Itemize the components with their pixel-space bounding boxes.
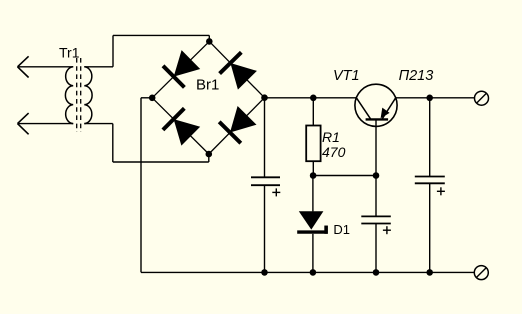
resistor R1	[306, 126, 320, 162]
wire stub to bridge top node	[208, 35, 210, 41]
svg-text:П213: П213	[399, 68, 434, 84]
junction bottom rail C1	[261, 269, 268, 276]
junction bottom rail C3	[426, 269, 433, 276]
primary winding arrow terminal bottom	[18, 113, 29, 134]
node bridge right	[261, 94, 268, 101]
wire from bridge left node	[141, 97, 152, 99]
wire junction to zener D1	[312, 176, 314, 212]
junction top rail C3	[426, 95, 433, 102]
wire filter capacitor to bottom rail	[264, 185, 266, 272]
wire bottom rail	[141, 271, 474, 273]
polarity plus C3	[437, 187, 445, 195]
wire junction to base line	[313, 175, 376, 177]
svg-text:VT1: VT1	[333, 68, 360, 84]
wire capacitor C2 to bottom rail	[375, 224, 377, 273]
wire top rail left of transistor	[265, 97, 357, 99]
polarity plus C1	[272, 188, 280, 196]
capacitor C1 filter	[251, 177, 280, 185]
wire base junction to capacitor	[375, 176, 377, 217]
wire left vertical	[140, 98, 142, 273]
svg-text:D1: D1	[333, 222, 350, 237]
wire R1 to junction	[312, 161, 314, 175]
wire zener D1 to bottom rail	[312, 234, 314, 273]
wire secondary top vertical	[112, 35, 114, 66]
bridge Br1 diode lower-right	[219, 106, 256, 143]
wire transistor base down	[375, 119, 377, 175]
capacitor C3 output	[415, 177, 445, 184]
wire bridge arm left-bottom	[152, 98, 209, 154]
junction bottom rail D1	[310, 269, 317, 276]
wire primary bottom	[18, 123, 74, 125]
junction top rail R1	[310, 95, 317, 102]
wire bridge arm left-top	[152, 41, 209, 97]
transformer core	[77, 58, 81, 132]
capacitor C2 base	[361, 216, 391, 223]
node bridge left	[149, 95, 156, 102]
wire top run to bridge	[113, 34, 209, 36]
svg-text:R1: R1	[322, 129, 340, 145]
junction bottom rail C2	[373, 269, 380, 276]
svg-text:Br1: Br1	[196, 77, 219, 94]
wire output capacitor to bottom rail	[429, 183, 431, 272]
transformer Tr1 primary winding	[65, 67, 73, 124]
wire bridge arm bottom-right	[209, 98, 265, 154]
transistor VT1	[355, 84, 397, 126]
transformer Tr1 secondary winding	[84, 67, 92, 124]
primary winding arrow terminal top	[18, 56, 29, 77]
wire secondary top horizontal	[84, 66, 113, 68]
output terminal top	[475, 91, 489, 105]
output terminal bottom	[474, 266, 488, 280]
wire primary top	[18, 66, 74, 68]
wire top rail right of transistor	[396, 97, 475, 99]
wire secondary bottom vertical	[112, 124, 114, 162]
wire bridge arm top-right	[209, 41, 264, 97]
node bridge bottom	[206, 151, 213, 158]
wire lower run to bridge	[113, 161, 209, 163]
junction below R1	[310, 172, 317, 179]
zener diode D1	[297, 211, 328, 234]
wire top rail to R1	[312, 98, 314, 126]
wire secondary bottom horizontal	[84, 123, 113, 125]
bridge Br1 diode upper-left	[163, 50, 200, 87]
bridge Br1 diode lower-left	[163, 108, 200, 145]
wire top rail to output capacitor	[429, 98, 431, 177]
junction base line	[373, 172, 380, 179]
bridge Br1 diode upper-right	[220, 52, 257, 89]
svg-text:470: 470	[322, 144, 346, 160]
polarity plus C2	[383, 226, 391, 234]
wire to filter capacitor	[264, 98, 266, 178]
node bridge top	[206, 38, 213, 45]
wire stub to bridge bottom node	[208, 154, 210, 162]
